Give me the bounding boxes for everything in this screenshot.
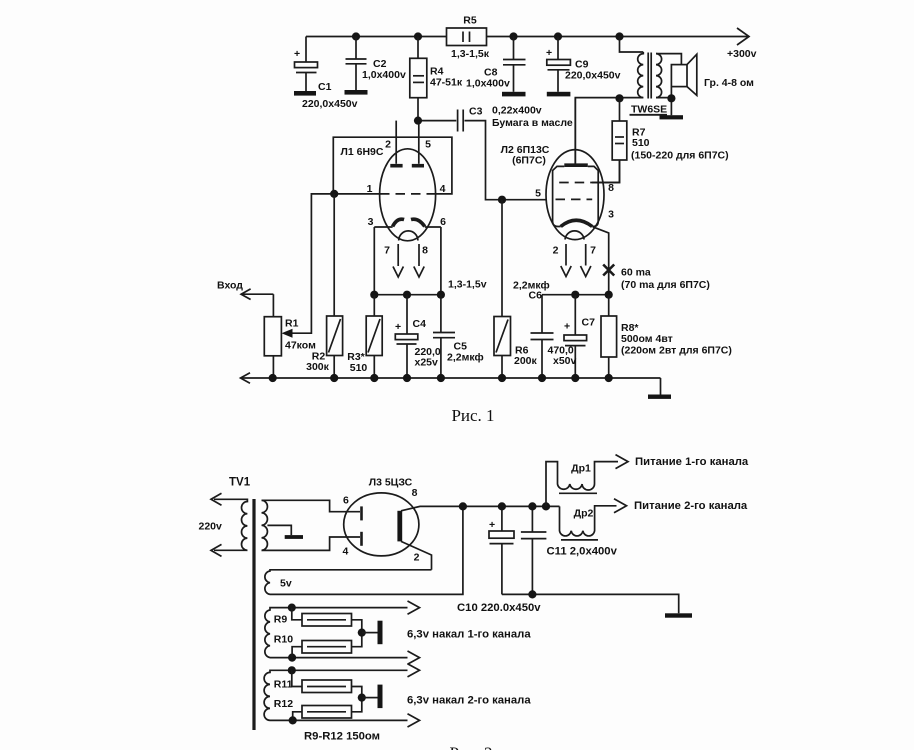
wire Л2 cathode bottom rail bbox=[542, 294, 609, 296]
resistor R7 bbox=[619, 98, 621, 121]
svg-text:3: 3 bbox=[608, 209, 614, 221]
choke Др1 bbox=[546, 462, 618, 507]
wire secondary bottom to speaker/ground bbox=[656, 87, 671, 116]
ground rail junction dots bbox=[269, 374, 277, 382]
svg-text:3: 3 bbox=[368, 216, 374, 228]
wire HV top to rectifier anode pin 6 bbox=[262, 500, 361, 511]
svg-text:(150-220 для 6П7С): (150-220 для 6П7С) bbox=[631, 150, 729, 162]
svg-text:С11 2,0x400v: С11 2,0x400v bbox=[547, 546, 618, 558]
tube Л1 heater arc bbox=[399, 231, 418, 241]
svg-text:5: 5 bbox=[535, 188, 541, 200]
node junction dot C3/grid/R6 bbox=[498, 196, 506, 204]
node junction dot C9/rail bbox=[554, 32, 562, 40]
ground symbol amplifier bbox=[660, 378, 662, 395]
svg-text:+: + bbox=[395, 321, 401, 333]
svg-text:Гр. 4-8 ом: Гр. 4-8 ом bbox=[704, 77, 754, 89]
tube Л2 6П13С envelope bbox=[546, 150, 604, 240]
svg-text:+: + bbox=[546, 47, 552, 59]
svg-text:TW6SE: TW6SE bbox=[631, 104, 667, 116]
svg-text:7: 7 bbox=[590, 245, 596, 257]
node junction dot primary/R7 bbox=[615, 94, 623, 102]
svg-text:300к: 300к bbox=[306, 361, 330, 373]
transformer TW6SE core bbox=[647, 53, 649, 99]
wire Л1 cathode box bbox=[374, 226, 441, 228]
svg-text:Питание 1-го канала: Питание 1-го канала bbox=[635, 456, 749, 468]
svg-text:220,0x450v: 220,0x450v bbox=[565, 70, 621, 82]
svg-text:220v: 220v bbox=[199, 521, 223, 533]
svg-text:С6: С6 bbox=[529, 290, 543, 302]
tube Л3 cathode bar bbox=[397, 511, 402, 542]
node junction dot C11 bottom bbox=[528, 590, 536, 598]
svg-text:+: + bbox=[564, 321, 570, 333]
wire HV bottom to rectifier anode pin 4 bbox=[262, 537, 361, 550]
svg-text:+300v: +300v bbox=[727, 48, 757, 60]
node junction dot speaker/ground bbox=[667, 94, 675, 102]
svg-text:C1: C1 bbox=[318, 81, 332, 93]
svg-text:Вход: Вход bbox=[217, 280, 243, 292]
svg-text:(6П7С): (6П7С) bbox=[512, 155, 546, 167]
svg-text:R9: R9 bbox=[274, 614, 288, 626]
svg-text:2,2мкф: 2,2мкф bbox=[447, 352, 484, 364]
svg-text:TV1: TV1 bbox=[229, 477, 251, 489]
ground bar under C1 bbox=[294, 91, 316, 96]
ground bar under C9 bbox=[547, 92, 571, 97]
ground rail bottom of amplifier with arrow bbox=[241, 377, 661, 379]
tube Л2 cathode arc bbox=[561, 220, 593, 226]
svg-text:R1: R1 bbox=[285, 318, 299, 330]
node junction dot choke Др1 feed bbox=[542, 502, 550, 510]
svg-text:8: 8 bbox=[608, 182, 614, 194]
svg-text:5: 5 bbox=[425, 139, 431, 151]
svg-text:+: + bbox=[489, 519, 495, 531]
node junction dot winding1 top bbox=[288, 604, 296, 612]
transformer TW6SE primary winding bbox=[638, 52, 644, 98]
resistor R10 bbox=[292, 647, 302, 658]
svg-text:6: 6 bbox=[343, 495, 349, 507]
svg-text:8: 8 bbox=[412, 487, 418, 499]
wire rail dot to output transformer primary top bbox=[620, 37, 644, 53]
node junction dot winding1 bottom bbox=[288, 654, 296, 662]
svg-text:5v: 5v bbox=[280, 578, 292, 590]
tube Л1 cathode arcs bbox=[393, 219, 405, 226]
node junction dot C10/rail bbox=[498, 502, 506, 510]
svg-text:(220ом 2вт для 6П7С): (220ом 2вт для 6П7С) bbox=[621, 345, 732, 357]
tube Л1 anode bars pins 2,5 bbox=[395, 121, 397, 164]
tube Л3 5Ц3С envelope bbox=[344, 493, 419, 556]
transformer TV1 core bbox=[252, 499, 255, 730]
svg-text:7: 7 bbox=[384, 245, 390, 257]
potentiometer R1 wiper arrowhead bbox=[282, 329, 293, 338]
svg-text:Др1: Др1 bbox=[571, 463, 591, 475]
wire R11/R12 to chassis bbox=[352, 687, 362, 712]
resistor R6 bbox=[501, 200, 503, 317]
svg-text:2: 2 bbox=[553, 245, 559, 257]
svg-text:(70 ma для 6П7С): (70 ma для 6П7С) bbox=[621, 279, 710, 291]
svg-text:1,3-1,5v: 1,3-1,5v bbox=[448, 279, 487, 291]
transformer TV1 primary winding 220v bbox=[214, 499, 247, 550]
svg-text:Л1 6Н9С: Л1 6Н9С bbox=[341, 146, 384, 158]
capacitor C11 bbox=[531, 506, 533, 532]
wire Л2 cathode pin 3 to X bbox=[593, 227, 609, 295]
HV center tap to chassis bbox=[267, 525, 291, 535]
capacitor C2 bbox=[355, 37, 357, 60]
ground symbol power supply bbox=[665, 613, 692, 617]
wire Л1 cathode bottom rail bbox=[374, 294, 441, 296]
svg-text:Бумага в масле: Бумага в масле bbox=[492, 117, 573, 129]
svg-text:8: 8 bbox=[422, 245, 428, 257]
svg-text:500ом 4вт: 500ом 4вт bbox=[621, 333, 673, 345]
svg-text:60 ma: 60 ma bbox=[621, 267, 651, 279]
svg-text:1,3-1,5к: 1,3-1,5к bbox=[451, 48, 490, 60]
svg-text:1,0x400v: 1,0x400v bbox=[362, 69, 406, 81]
svg-text:R11: R11 bbox=[274, 679, 293, 691]
current break X mark 60 ma bbox=[603, 265, 614, 276]
wire Л2 anode to primary bottom bbox=[575, 98, 643, 166]
resistor R4 bbox=[417, 37, 419, 59]
tube Л2 heater pins 2,7 arrows bbox=[565, 244, 567, 266]
chassis bar channel 2 heater bbox=[378, 685, 383, 709]
choke Др2 bbox=[560, 506, 617, 536]
tube Л2 screen grid dashed pin 8 bbox=[559, 182, 592, 184]
tube Л3 anode bar pin 4 bbox=[360, 532, 363, 546]
transformer TV1 HV secondary winding bbox=[262, 500, 268, 550]
capacitor C1 electrolytic bbox=[305, 37, 307, 63]
tube Л1 6Н9С envelope bbox=[380, 149, 436, 241]
tube Л3 anode bar pin 6 bbox=[360, 506, 363, 520]
resistor R12 bbox=[293, 712, 302, 721]
svg-text:C4: C4 bbox=[413, 318, 427, 330]
capacitor C9 electrolytic bbox=[557, 37, 559, 60]
wire grid box around Л1 bbox=[333, 137, 452, 194]
transformer TW6SE secondary winding bbox=[656, 54, 662, 98]
tube Л2 heater arc bbox=[565, 231, 584, 240]
node junction dot R4/C3/anodes bbox=[414, 117, 422, 125]
capacitor C8 bbox=[513, 37, 515, 60]
node junction dot C2/rail bbox=[352, 32, 360, 40]
ground bar under C8 bbox=[502, 92, 526, 97]
wire secondary top to speaker bbox=[656, 54, 681, 65]
svg-text:x50v: x50v bbox=[553, 355, 577, 367]
svg-text:x25v: x25v bbox=[415, 357, 439, 369]
capacitor C6 bbox=[541, 295, 543, 333]
node junction dot winding2 top bbox=[288, 666, 296, 674]
svg-text:200к: 200к bbox=[514, 355, 538, 367]
capacitor C4 electrolytic bbox=[406, 295, 408, 334]
capacitor C5 bbox=[440, 295, 442, 333]
svg-text:510: 510 bbox=[350, 362, 368, 374]
node junction dot C8/rail bbox=[509, 32, 517, 40]
tube Л1 heater pins 7,8 arrows bbox=[397, 244, 399, 266]
resistor R8* bbox=[608, 295, 610, 316]
svg-text:6: 6 bbox=[440, 216, 446, 228]
resistor R5 bbox=[447, 28, 487, 46]
capacitor C3 paper-in-oil bbox=[418, 120, 456, 122]
svg-text:C7: C7 bbox=[582, 317, 596, 329]
node junction dot C11/rail bbox=[528, 502, 536, 510]
svg-text:Питание 2-го канала: Питание 2-го канала bbox=[634, 500, 748, 512]
resistor R11 bbox=[292, 670, 302, 686]
node junction dot R4/rail bbox=[414, 32, 422, 40]
svg-text:6,3v накал 2-го канала: 6,3v накал 2-го канала bbox=[407, 695, 531, 707]
tube Л1 grid dashed line pins 1,4 bbox=[380, 193, 436, 195]
transformer TV1 5v winding bbox=[265, 570, 432, 595]
transformer TV1 6.3v winding 2 bbox=[264, 670, 407, 720]
node junction dot transformer/rail bbox=[615, 32, 623, 40]
svg-text:R10: R10 bbox=[274, 634, 293, 646]
node junction dot pin8/5v/C10 rail bbox=[459, 502, 467, 510]
svg-text:1,0x400v: 1,0x400v bbox=[466, 78, 510, 90]
wire R9/R10 to chassis bbox=[352, 620, 362, 647]
tube Л2 anode bar and wire bbox=[564, 163, 588, 167]
svg-text:510: 510 bbox=[632, 137, 650, 149]
ground rail power supply bbox=[502, 594, 679, 613]
wire cathode pin 8 to B+ rail bbox=[401, 506, 560, 510]
capacitor C10 electrolytic bbox=[501, 506, 503, 531]
svg-text:+: + bbox=[294, 48, 300, 60]
svg-text:Л3 5ЦЗС: Л3 5ЦЗС bbox=[369, 477, 413, 489]
svg-text:47-51к: 47-51к bbox=[430, 77, 463, 89]
svg-text:4: 4 bbox=[342, 546, 348, 558]
tube Л2 control grid dashed pin 5 bbox=[556, 198, 593, 200]
svg-text:6,3v накал 1-го канала: 6,3v накал 1-го канала bbox=[407, 629, 531, 641]
svg-text:220,0x450v: 220,0x450v bbox=[302, 98, 358, 110]
svg-text:C3: C3 bbox=[469, 106, 483, 118]
transformer TV1 6.3v winding 1 bbox=[265, 608, 408, 658]
wire cathode pin 2 to 5v winding bbox=[401, 541, 432, 569]
tube Л2 beam plates inner outline bbox=[553, 166, 565, 226]
svg-text:Рис. 2: Рис. 2 bbox=[449, 744, 492, 750]
svg-text:R5: R5 bbox=[463, 15, 477, 27]
svg-text:Др2: Др2 bbox=[574, 508, 594, 520]
node junction dot winding2 bottom bbox=[289, 716, 297, 724]
capacitor C7 electrolytic bbox=[574, 295, 576, 335]
node junction dot pin1/R2 bbox=[330, 190, 338, 198]
resistor R9 bbox=[292, 608, 302, 620]
speaker Гр. 4-8 ом bbox=[671, 65, 687, 87]
svg-text:0,22x400v: 0,22x400v bbox=[492, 105, 542, 117]
svg-text:2: 2 bbox=[385, 139, 391, 151]
ground bar under speaker bbox=[660, 115, 684, 119]
wire +300v top rail left segment bbox=[306, 36, 447, 38]
svg-text:2: 2 bbox=[414, 552, 420, 564]
resistor R3* bbox=[373, 295, 375, 316]
svg-text:R12: R12 bbox=[274, 698, 293, 710]
svg-text:C10 220.0x450v: C10 220.0x450v bbox=[457, 602, 541, 614]
svg-text:Рис. 1: Рис. 1 bbox=[451, 406, 494, 425]
resistor R2 bbox=[333, 194, 335, 316]
ground bar under C2 bbox=[345, 90, 368, 95]
svg-text:R9-R12 150ом: R9-R12 150ом bbox=[304, 731, 380, 743]
chassis bar channel 1 heater bbox=[378, 621, 383, 645]
wire pin1 to R1 wiper vertical bbox=[285, 194, 380, 333]
potentiometer R1 bbox=[272, 294, 274, 317]
wire +300v top rail right segment with arrow bbox=[487, 36, 750, 38]
